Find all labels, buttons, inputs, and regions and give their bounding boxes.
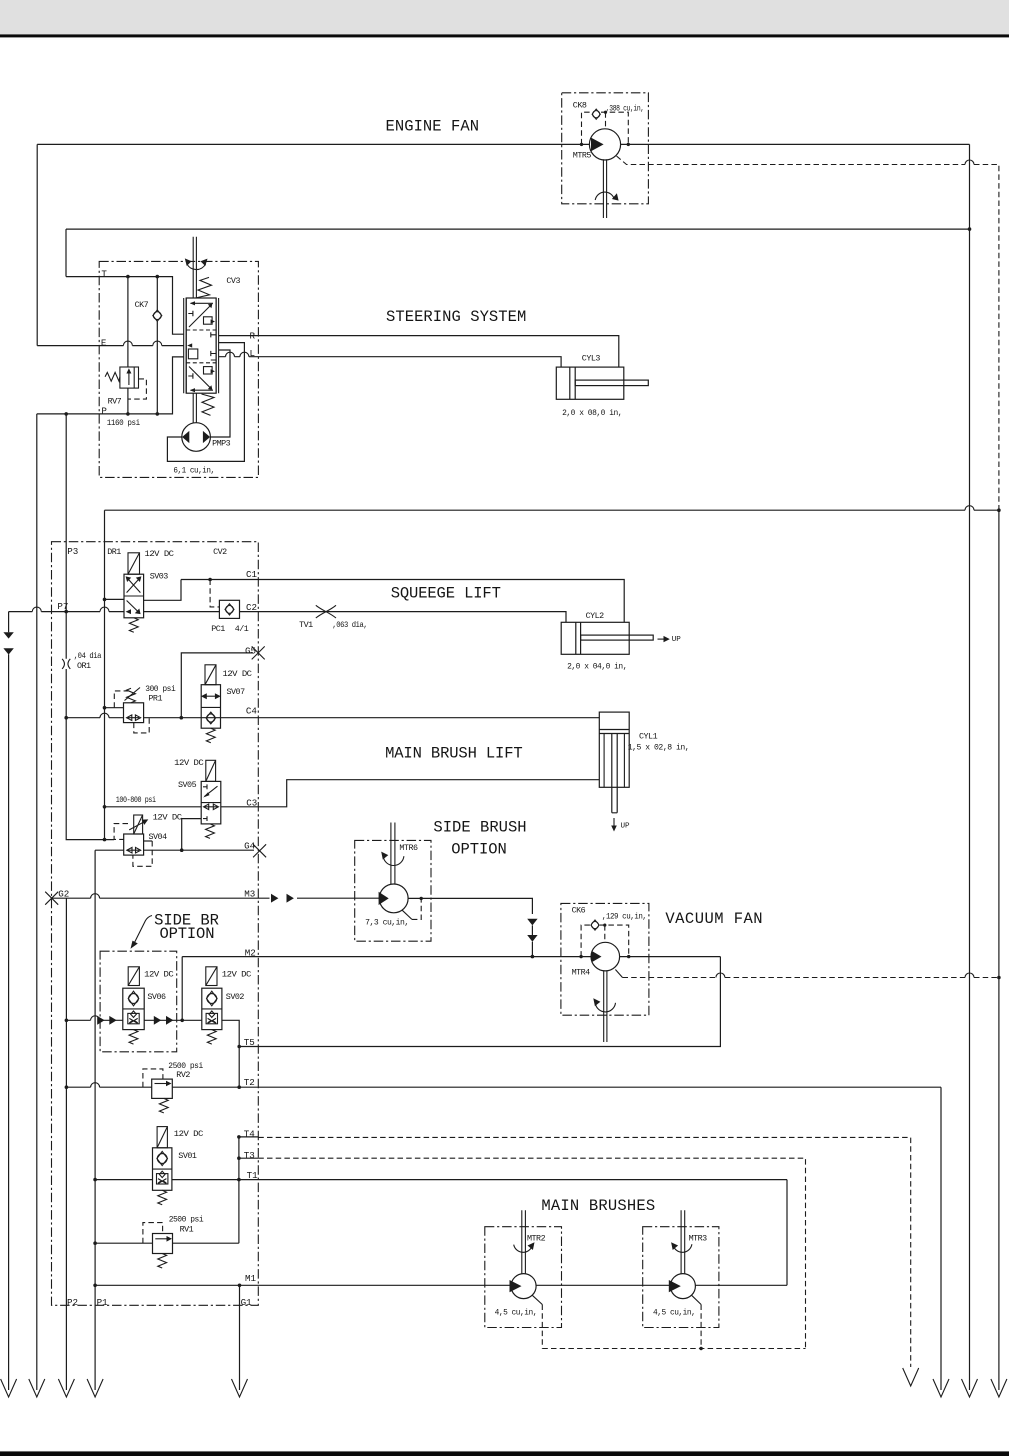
pilot check PC1 xyxy=(219,600,239,618)
svg-text:C2: C2 xyxy=(246,602,257,613)
RV7 spring (horizontal) xyxy=(105,372,120,381)
wire: drain vertical right (solid below joint) xyxy=(998,510,1000,1390)
SV05 spring xyxy=(206,824,215,839)
wire: SV06 supply line with jump xyxy=(66,1019,122,1021)
wire: branch down to SV04 pilot xyxy=(66,718,114,840)
SV01 spring xyxy=(158,1190,167,1205)
CV3 middle cell internals xyxy=(188,349,197,359)
svg-text:SV05: SV05 xyxy=(178,780,197,790)
wire: G2 branch down to P2 xyxy=(65,898,67,1390)
svg-text:M3: M3 xyxy=(244,888,255,899)
svg-text:OR1: OR1 xyxy=(77,661,91,671)
svg-text:CK8: CK8 xyxy=(573,101,587,111)
ground arrow xyxy=(58,1379,74,1397)
svg-text:CV2: CV2 xyxy=(213,547,227,557)
MTR5 rotation arrow xyxy=(595,192,614,200)
wire: SV03 drain stub xyxy=(105,598,125,600)
wire: pump right riser xyxy=(210,350,230,437)
motor MTR4 xyxy=(591,942,620,971)
svg-text:MTR5: MTR5 xyxy=(573,150,592,160)
SV04 dashed pilot box xyxy=(114,824,128,840)
svg-text:MTR2: MTR2 xyxy=(527,1234,546,1244)
svg-text:R: R xyxy=(250,330,256,341)
solenoid valve SV03 xyxy=(128,553,140,574)
wire: T4 line xyxy=(239,1136,258,1138)
wire: T3 line xyxy=(239,1157,258,1159)
wire: P3 feed from steering P line xyxy=(65,414,67,612)
throttle TV1 xyxy=(316,605,336,618)
motor MTR2 xyxy=(511,1274,536,1299)
svg-text:,063 dia,: ,063 dia, xyxy=(332,620,367,630)
svg-text:MTR3: MTR3 xyxy=(689,1234,708,1244)
wire: T4/T3 riser xyxy=(238,1137,240,1243)
steering manifold enclosure xyxy=(99,261,258,477)
motor MTR2 enclosure xyxy=(485,1227,562,1328)
ground arrow xyxy=(933,1379,949,1397)
wire: P port line xyxy=(37,357,184,414)
svg-text:12V DC: 12V DC xyxy=(222,970,252,980)
CV3 bottom cell internals xyxy=(189,367,212,390)
manifold CV2 enclosure xyxy=(52,542,259,1306)
motor MTR5 xyxy=(589,129,620,160)
svg-text:G1: G1 xyxy=(241,1297,253,1308)
cylinder CYL1 xyxy=(599,712,629,787)
svg-text:SV06: SV06 xyxy=(147,992,166,1002)
svg-text:100-800 psi: 100-800 psi xyxy=(116,795,156,805)
wire: G1 riser to tank xyxy=(239,1285,241,1390)
wire: P1 riser corner into SV04 xyxy=(95,849,124,851)
wire: DR1 drain line across page xyxy=(105,509,999,511)
cylinder CYL2 xyxy=(561,622,629,654)
cylinder CYL3 xyxy=(556,367,624,399)
wire: T1 line xyxy=(95,1179,787,1181)
svg-text:PMP3: PMP3 xyxy=(212,438,231,448)
MTR4 rotation arrow xyxy=(595,1003,615,1012)
wire: tank return line xyxy=(66,228,970,230)
SV06 spring xyxy=(129,1030,138,1045)
ground arrow xyxy=(1,1379,17,1397)
top black rule xyxy=(0,34,1009,37)
CV3 top spring xyxy=(196,277,212,298)
side brush option enclosure xyxy=(100,951,177,1052)
svg-text:MAIN BRUSH LIFT: MAIN BRUSH LIFT xyxy=(385,745,523,763)
svg-text:M2: M2 xyxy=(245,948,256,959)
CV3 top cell internals xyxy=(189,305,212,328)
MTR2 case drain dashed xyxy=(532,1295,542,1304)
wire: case drain bottom dashed xyxy=(542,1348,805,1350)
svg-text:12V DC: 12V DC xyxy=(145,549,175,559)
MTR5 case drain dashed xyxy=(617,156,999,510)
wire: RV1 supply line xyxy=(95,1242,239,1244)
MTR3 case drain dashed xyxy=(692,1295,702,1304)
wire: SV03 to C1 xyxy=(144,580,181,601)
svg-text:PC1: PC1 xyxy=(211,624,225,634)
MTR3 shaft xyxy=(681,1210,685,1274)
svg-text:RV2: RV2 xyxy=(176,1070,190,1080)
MTR3 rotation arrow xyxy=(673,1244,692,1252)
wire xyxy=(621,143,970,145)
relief valve RV2 xyxy=(152,1079,173,1098)
svg-text:C4: C4 xyxy=(246,706,258,717)
wire: M2 line to vacuum fan xyxy=(182,956,591,958)
svg-text:CYL3: CYL3 xyxy=(582,354,601,364)
top grey header bar xyxy=(0,0,1009,34)
svg-text:G5: G5 xyxy=(245,645,256,656)
wire: T1 right edge down to M1 xyxy=(786,1180,788,1286)
CV3 bottom spring xyxy=(202,394,215,415)
wire: G5 riser xyxy=(181,653,253,718)
svg-text:SV01: SV01 xyxy=(178,1151,197,1161)
flow check down xyxy=(3,632,13,638)
svg-text:SV02: SV02 xyxy=(226,992,245,1002)
flow checks down to M2 xyxy=(527,919,537,926)
svg-text:STEERING SYSTEM: STEERING SYSTEM xyxy=(386,308,526,326)
svg-text:P1: P1 xyxy=(97,1297,109,1308)
svg-text:T3: T3 xyxy=(244,1150,255,1161)
svg-text:7,3 cu,in,: 7,3 cu,in, xyxy=(365,917,409,927)
motor MTR6 enclosure xyxy=(355,840,431,941)
wire: M2 riser xyxy=(181,957,183,1021)
SV07 spring xyxy=(206,728,215,743)
svg-text:12V DC: 12V DC xyxy=(174,758,204,768)
svg-text:,04 dia: ,04 dia xyxy=(74,651,102,661)
ground arrow xyxy=(991,1379,1007,1397)
svg-text:1160 psi: 1160 psi xyxy=(107,418,140,428)
MTR6 case drain dashed xyxy=(402,910,412,919)
wire: CK6 dashed bypass xyxy=(581,925,629,957)
svg-text:UP: UP xyxy=(672,636,682,644)
wire: T port line xyxy=(66,277,184,335)
svg-text:T: T xyxy=(101,268,107,279)
wire: pump left loop xyxy=(167,343,244,462)
svg-text:2,0 x 04,0 in,: 2,0 x 04,0 in, xyxy=(567,662,627,672)
motor MTR4 enclosure xyxy=(561,903,649,1015)
svg-text:P7: P7 xyxy=(57,601,68,612)
motor MTR5 enclosure xyxy=(562,93,649,204)
wire: supply to PR1 with jump over DR1 xyxy=(66,717,123,719)
svg-text:SIDE BRUSH: SIDE BRUSH xyxy=(433,819,526,837)
wire: P1 supply vertical xyxy=(94,850,96,1390)
svg-text:CK7: CK7 xyxy=(135,300,149,310)
svg-text:P2: P2 xyxy=(67,1297,78,1308)
flow triangles M3 xyxy=(271,894,278,903)
svg-text:DR1: DR1 xyxy=(107,547,121,557)
PR1 dashed pilot left xyxy=(114,691,131,708)
motor MTR3 enclosure xyxy=(643,1227,719,1328)
engine fan supply line xyxy=(37,143,589,145)
svg-text:E: E xyxy=(101,337,107,348)
wire: left riser to E port xyxy=(36,144,38,345)
svg-text:4,5 cu,in,: 4,5 cu,in, xyxy=(653,1308,695,1318)
svg-text:12V DC: 12V DC xyxy=(174,1129,204,1139)
wire: T4 dashed drain right vertical xyxy=(910,1138,912,1367)
wire: P7 supply line with jumps xyxy=(9,611,124,613)
pump PMP3 xyxy=(182,423,211,452)
wire: engine fan return down right side xyxy=(969,144,971,1390)
svg-text:P3: P3 xyxy=(67,546,78,557)
svg-text:G2: G2 xyxy=(58,889,69,900)
svg-text:2500 psi: 2500 psi xyxy=(169,1215,204,1225)
relief valve RV1 xyxy=(153,1234,173,1254)
svg-text:CK6: CK6 xyxy=(572,906,586,916)
CV3 shaft to pump xyxy=(193,393,196,423)
steering valve CV3 body xyxy=(186,298,216,393)
PR1 dashed drain under xyxy=(134,718,149,733)
svg-text:G4: G4 xyxy=(244,841,256,852)
SV04 drain stub and dashed loop xyxy=(144,840,153,842)
CYL2 UP arrow xyxy=(658,638,665,640)
svg-text:M1: M1 xyxy=(245,1273,257,1284)
wire: P7 to tank arrows left xyxy=(8,612,10,1390)
wire: L line to cylinder with jumps xyxy=(219,357,561,367)
svg-text:RV1: RV1 xyxy=(180,1224,194,1234)
ground arrow xyxy=(232,1379,248,1397)
MTR4 shaft xyxy=(604,971,607,1042)
SV03 spring xyxy=(129,618,138,633)
svg-text:6,1 cu,in,: 6,1 cu,in, xyxy=(173,465,214,475)
wire: E port line with jumps xyxy=(37,345,184,347)
check valve CK7 xyxy=(156,277,158,414)
leader arrow to side brush box xyxy=(134,916,153,945)
svg-text:12V DC: 12V DC xyxy=(144,970,174,980)
svg-text:SV04: SV04 xyxy=(149,832,168,842)
port G2 plug xyxy=(45,892,58,905)
svg-text:UP: UP xyxy=(621,823,631,831)
svg-text:L: L xyxy=(250,348,256,359)
svg-text:VACUUM FAN: VACUUM FAN xyxy=(665,910,762,928)
MTR4 case drain dashed xyxy=(615,970,622,978)
solenoid valve SV05 xyxy=(206,760,216,781)
svg-text:,388 cu,in,: ,388 cu,in, xyxy=(606,104,644,114)
PR1 spring top xyxy=(127,688,136,703)
svg-text:T1: T1 xyxy=(247,1170,259,1181)
svg-text:T2: T2 xyxy=(244,1077,255,1088)
wire: R line to cylinder xyxy=(219,336,619,368)
ground arrow xyxy=(962,1379,978,1397)
wire: SV02 out to T5 riser xyxy=(222,1020,239,1046)
MTR2 rotation arrow xyxy=(514,1244,533,1252)
SV02 spring xyxy=(207,1030,216,1045)
MTR2 shaft xyxy=(522,1210,526,1274)
wire: T5 riser continues to T2 xyxy=(238,1047,240,1088)
wire: C4 line xyxy=(144,717,600,719)
svg-text:PR1: PR1 xyxy=(148,693,162,703)
svg-text:C3: C3 xyxy=(246,798,257,809)
CV3 steering wheel arrow xyxy=(187,264,206,270)
wire: T5 line xyxy=(239,957,720,1047)
ground arrow xyxy=(87,1379,103,1397)
wire: G2 / M3 line with jump over P1 riser xyxy=(52,897,380,899)
svg-text:SV07: SV07 xyxy=(227,687,246,697)
wire: SV05 left port to G4 xyxy=(182,819,202,851)
svg-text:CYL2: CYL2 xyxy=(586,611,605,621)
steering valve CV3 rails xyxy=(184,298,219,393)
wire: M1 line xyxy=(95,1284,787,1286)
ground arrow (dashed) xyxy=(903,1368,919,1386)
proportional valve SV04 xyxy=(124,834,144,855)
motor MTR3 xyxy=(670,1274,695,1299)
solenoid valve SV01 xyxy=(157,1127,167,1148)
svg-text:4,5 cu,in,: 4,5 cu,in, xyxy=(495,1308,537,1318)
solenoid valve SV02 xyxy=(206,967,217,986)
svg-text:MTR6: MTR6 xyxy=(399,843,418,853)
solenoid valve SV07 xyxy=(205,665,216,685)
wire: between SV06 and SV02 xyxy=(144,1019,202,1021)
svg-text:12V DC: 12V DC xyxy=(223,669,253,679)
wire: M2 out of motor xyxy=(620,956,721,958)
svg-text:OPTION: OPTION xyxy=(451,841,507,859)
wire: G4 line xyxy=(144,849,254,851)
svg-text:1,5 x 02,8 in,: 1,5 x 02,8 in, xyxy=(628,743,690,753)
svg-text:CV3: CV3 xyxy=(226,276,240,286)
bottom black rule xyxy=(0,1451,1009,1456)
PR1 drain stub xyxy=(105,707,124,709)
check valve CK8 xyxy=(592,109,600,119)
wire: C3 line xyxy=(105,780,600,807)
port G5 plug xyxy=(252,646,265,659)
MTR6 rotation arrow xyxy=(383,856,404,865)
wire: CK8 dashed bypass xyxy=(582,112,629,144)
svg-text:T5: T5 xyxy=(244,1037,255,1048)
port G4 plug xyxy=(253,844,266,857)
svg-text:SV03: SV03 xyxy=(150,571,169,581)
svg-text:ENGINE FAN: ENGINE FAN xyxy=(386,118,480,136)
wire: P line down left side xyxy=(36,414,38,1390)
PC1 dashed pilot xyxy=(210,580,219,607)
relief valve RV7 xyxy=(127,277,129,414)
MTR5 shaft xyxy=(603,159,606,218)
wire: DR1 vertical xyxy=(104,510,106,839)
svg-text:4/1: 4/1 xyxy=(235,624,249,634)
svg-text:C1: C1 xyxy=(246,569,258,580)
MTR6 shaft xyxy=(391,823,395,885)
pressure reducing valve PR1 xyxy=(124,703,144,723)
wire: T2 return right vertical xyxy=(940,1087,942,1390)
svg-text:12V DC: 12V DC xyxy=(153,812,183,822)
svg-text:,129 cu,in,: ,129 cu,in, xyxy=(602,912,647,922)
check valve CK6 xyxy=(591,920,599,930)
wire: C2 line through PC1 xyxy=(144,612,566,623)
svg-text:RV7: RV7 xyxy=(108,396,122,406)
svg-text:SQUEEGE LIFT: SQUEEGE LIFT xyxy=(391,584,501,602)
RV7 dashed pilot xyxy=(129,379,147,399)
CV3 steering shaft xyxy=(193,237,196,298)
CYL1 UP arrow xyxy=(613,818,615,827)
svg-text:MAIN BRUSHES: MAIN BRUSHES xyxy=(541,1197,655,1215)
wire: C1 line xyxy=(181,580,624,623)
solenoid valve SV06 xyxy=(128,967,139,986)
motor MTR6 xyxy=(379,884,408,913)
svg-text:CYL1: CYL1 xyxy=(639,731,658,741)
orifice OR1 xyxy=(65,612,67,718)
wire: M3 through to corner xyxy=(408,898,532,914)
svg-text:2,0 x 08,0 in,: 2,0 x 08,0 in, xyxy=(562,408,622,418)
svg-text:P: P xyxy=(101,406,107,417)
svg-text:MTR4: MTR4 xyxy=(572,968,591,978)
ground arrow xyxy=(29,1379,45,1397)
svg-text:OPTION: OPTION xyxy=(160,925,215,943)
wire: T2 line with jump over P1 riser xyxy=(66,1086,941,1088)
svg-text:T4: T4 xyxy=(244,1129,256,1140)
svg-text:TV1: TV1 xyxy=(299,620,313,630)
wire: corner into T port xyxy=(65,229,67,277)
svg-text:300 psi: 300 psi xyxy=(145,684,176,694)
